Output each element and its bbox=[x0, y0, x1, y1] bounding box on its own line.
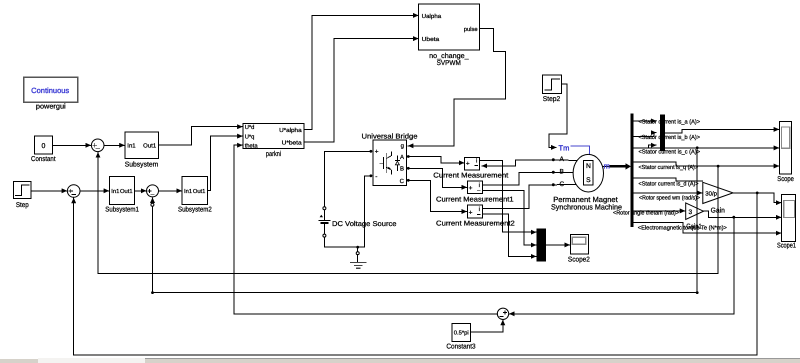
svg-text:powergui: powergui bbox=[36, 103, 66, 111]
svg-text:<Stator current is_q (A)>: <Stator current is_q (A)> bbox=[639, 164, 699, 171]
svg-text:C: C bbox=[400, 178, 405, 185]
svg-text:SVPWM: SVPWM bbox=[437, 60, 461, 67]
step source Step bbox=[13, 181, 31, 209]
wire Step2 to machine Tm input bbox=[549, 84, 567, 147]
wire Subsystem2 Out1 to parkni U*q bbox=[207, 136, 242, 190]
svg-text:Scope: Scope bbox=[777, 176, 794, 183]
svg-text:Current Measurement2: Current Measurement2 bbox=[436, 221, 515, 228]
wire bridge A to Current Measurement bbox=[408, 157, 464, 163]
wire electrical angle feedback down to sum S4 bbox=[509, 217, 733, 314]
block Current Measurement2 CM3 bbox=[436, 205, 515, 228]
svg-text:i: i bbox=[479, 206, 480, 213]
svg-text:0: 0 bbox=[42, 143, 46, 150]
wire bus out wm to gain 30/p bbox=[634, 192, 702, 194]
svg-text:B: B bbox=[400, 165, 404, 172]
step source Step2 bbox=[543, 75, 562, 103]
svg-text:Tm: Tm bbox=[559, 143, 570, 152]
wire gain 3 output to Scope1 input 2 bbox=[704, 211, 782, 217]
wire machine phase A to CM1 minus bbox=[482, 165, 515, 167]
svg-text:Subsystem: Subsystem bbox=[125, 160, 159, 168]
wire is_c feedback down and back to sum S3 bbox=[153, 148, 698, 293]
bus selector bar bbox=[631, 114, 634, 227]
port dot bridge minus bbox=[370, 174, 373, 177]
hop marker below sum S3 bbox=[151, 203, 154, 206]
wire Subsystem Out1 to parkni U*d bbox=[159, 127, 243, 145]
svg-text:<Rotor speed wm (rad/s)>: <Rotor speed wm (rad/s)> bbox=[639, 195, 700, 202]
svg-text:Subsystem2: Subsystem2 bbox=[178, 205, 212, 213]
junction dot at is_c feedback corner bbox=[696, 291, 699, 294]
junction dot on is_c wire bbox=[696, 146, 699, 149]
svg-text:g: g bbox=[401, 144, 404, 150]
summing junction S4 for theta offset bbox=[497, 308, 508, 319]
svg-text:0.5*pi: 0.5*pi bbox=[454, 330, 469, 337]
svg-text:S: S bbox=[586, 177, 591, 184]
svg-text:+: + bbox=[469, 209, 473, 216]
subsystem block Subsystem1 bbox=[105, 176, 139, 213]
svg-text:Synchronous Machine: Synchronous Machine bbox=[551, 203, 622, 212]
wire blue Tm into machine top bbox=[571, 146, 590, 155]
svg-text:3: 3 bbox=[689, 209, 693, 216]
svg-text:pulse: pulse bbox=[464, 26, 478, 33]
wire bus out is_a to mux M1 bbox=[634, 120, 656, 122]
svg-text:<Electromagnetic torque Te (N*: <Electromagnetic torque Te (N*m)> bbox=[638, 225, 728, 232]
svg-text:no_change_: no_change_ bbox=[429, 52, 468, 60]
subsystem block parkni (park transform) bbox=[243, 123, 304, 158]
svg-text:Continuous: Continuous bbox=[31, 86, 69, 95]
wire speed feedback down and back to sum S2 bbox=[74, 193, 758, 355]
svg-text:Gain1: Gain1 bbox=[686, 222, 701, 230]
wire CM2 i output down to mux M2 input 2 bbox=[482, 191, 536, 245]
wire SVPWM pulse to Universal Bridge g bbox=[408, 29, 506, 146]
wire bus out thetam to gain 3 bbox=[634, 210, 685, 212]
svg-text:U*beta: U*beta bbox=[282, 140, 303, 147]
wire Constant to sum S1 bbox=[53, 144, 91, 146]
svg-text:Step: Step bbox=[16, 202, 29, 209]
wire parkni U*alpha to SVPWM Ualpha bbox=[304, 15, 418, 129]
svg-text:Constant: Constant bbox=[31, 156, 56, 163]
constant block Constant3 value 0.5*pi bbox=[446, 323, 475, 350]
svg-text:<Stator current is_b (A)>: <Stator current is_b (A)> bbox=[639, 134, 701, 141]
constant block Constant value 0 bbox=[31, 136, 56, 163]
block Universal Bridge bbox=[373, 140, 407, 185]
port dot machine A bbox=[552, 158, 555, 161]
svg-text:Constant3: Constant3 bbox=[446, 343, 475, 350]
wire CM2 to machine phase B bbox=[482, 172, 553, 185]
port dot machine C bbox=[552, 183, 555, 186]
machine phase stub A bbox=[553, 159, 577, 162]
mux M2 for scope2 bbox=[537, 228, 546, 261]
summing junction S3 bbox=[147, 185, 159, 197]
svg-text:In1: In1 bbox=[111, 189, 119, 195]
svg-text:i: i bbox=[476, 157, 477, 164]
mux M1 for stator currents bbox=[660, 115, 665, 152]
node junction at ground tap bbox=[356, 246, 359, 249]
wire bridge plus to DC source top bbox=[324, 151, 371, 206]
wire Step to sum S2 bbox=[31, 190, 67, 192]
wire bus out Te to Scope1 input 3 bbox=[634, 223, 781, 234]
summing junction S1 bbox=[91, 139, 104, 152]
svg-text:B: B bbox=[560, 169, 564, 176]
svg-text:C: C bbox=[560, 181, 565, 188]
wire is_q feedback down and back to sum S1 bbox=[98, 153, 718, 274]
svg-text:A: A bbox=[400, 154, 404, 161]
svg-text:Out1: Out1 bbox=[193, 188, 206, 195]
wire branch is_c to mux M1 input 3 bbox=[649, 145, 657, 148]
svg-text:Out1: Out1 bbox=[120, 188, 133, 195]
subsystem block Subsystem bbox=[125, 132, 159, 168]
svg-text:Scope2: Scope2 bbox=[568, 257, 590, 264]
port dot bridge A bbox=[407, 155, 410, 158]
svg-text:30/p: 30/p bbox=[705, 191, 717, 198]
wire bus out is_b to mux M1 bbox=[634, 133, 656, 137]
scope block Scope bbox=[777, 121, 794, 182]
wire bridge C to Current Measurement2 bbox=[408, 180, 466, 211]
svg-text:Current Measurement1: Current Measurement1 bbox=[436, 196, 514, 203]
wire sum S4 output to parkni theta bbox=[234, 145, 497, 314]
wire sum S1 to Subsystem bbox=[104, 144, 124, 146]
svg-text:DC Voltage Source: DC Voltage Source bbox=[332, 220, 397, 228]
wire mux M1 to Scope input 1 bbox=[665, 129, 779, 133]
svg-text:Ubeta: Ubeta bbox=[422, 36, 440, 43]
svg-text:Universal Bridge: Universal Bridge bbox=[362, 133, 418, 141]
wire CM1 i output down to mux M2 input 1 bbox=[479, 161, 536, 233]
gain block 30/p bbox=[703, 182, 733, 214]
svg-text:m: m bbox=[604, 162, 610, 171]
svg-text:U*d: U*d bbox=[245, 124, 255, 131]
svg-text:In1: In1 bbox=[184, 189, 192, 195]
svg-text:<Stator current is_d (A)>: <Stator current is_d (A)> bbox=[639, 181, 700, 188]
wire sum S2 to Subsystem1 bbox=[80, 190, 109, 192]
junction dot at sum S3 feedback corner bbox=[151, 291, 154, 294]
svg-text:A: A bbox=[560, 156, 565, 163]
scope block Scope1 bbox=[777, 194, 796, 249]
block Current Measurement1 CM2 bbox=[436, 181, 514, 203]
window bottom scrollbar strip bbox=[0, 358, 800, 363]
wire bus out is_d short run bbox=[634, 178, 703, 181]
svg-text:Out1: Out1 bbox=[143, 143, 157, 150]
svg-text:Ualpha: Ualpha bbox=[422, 13, 442, 20]
wire gain 30/p output to Scope1 input 1 bbox=[733, 193, 781, 203]
svg-text:+: + bbox=[375, 149, 379, 156]
junction dot on gain 3 output bbox=[732, 216, 735, 219]
svg-text:parkni: parkni bbox=[266, 150, 282, 158]
port dot bridge plus bbox=[370, 150, 373, 153]
svg-text:U*alpha: U*alpha bbox=[279, 127, 302, 134]
svg-text:+: + bbox=[466, 161, 470, 168]
junction dot on 30/p output bbox=[756, 192, 759, 195]
wire CM3 to machine phase C bbox=[482, 185, 553, 209]
svg-text:-: - bbox=[375, 174, 377, 181]
wire sum S3 to Subsystem2 bbox=[159, 190, 182, 192]
svg-text:i: i bbox=[479, 182, 480, 189]
subsystem block no_change_ SVPWM bbox=[419, 4, 480, 67]
machine PMSM body bbox=[573, 154, 603, 192]
wire parkni U*beta to SVPWM Ubeta bbox=[304, 39, 418, 143]
scope block Scope2 bbox=[568, 234, 590, 263]
wire bus out is_q run to Scope input 3 bbox=[634, 162, 779, 166]
machine phase stub B bbox=[553, 171, 573, 173]
gain block 3 Gain1 bbox=[686, 203, 704, 230]
svg-text:<Stator current is_c (A)>: <Stator current is_c (A)> bbox=[639, 149, 701, 156]
subsystem block Subsystem2 bbox=[178, 176, 212, 213]
machine phase stub C bbox=[553, 184, 577, 186]
port dot bridge B bbox=[407, 167, 410, 170]
junction dot on is_q wire bbox=[717, 165, 720, 168]
wire bridge minus to ground node and DC source bottom bbox=[324, 176, 371, 247]
port dot machine B bbox=[552, 171, 555, 174]
svg-text:+: + bbox=[469, 185, 473, 192]
svg-text:N: N bbox=[586, 163, 591, 170]
wire segment up to machine A port bbox=[515, 160, 553, 166]
port dot bridge C bbox=[407, 179, 410, 182]
svg-text:Subsystem1: Subsystem1 bbox=[105, 205, 139, 213]
svg-text:theta: theta bbox=[245, 143, 259, 150]
wire bridge B to Current Measurement1 bbox=[408, 168, 466, 187]
IGBT and diode icon inside Universal Bridge bbox=[380, 152, 400, 174]
ground symbol bbox=[351, 249, 366, 269]
wire Constant3 to sum S4 bbox=[471, 320, 503, 332]
svg-text:<Stator current is_a (A)>: <Stator current is_a (A)> bbox=[639, 118, 701, 125]
wire CM3 i output down to mux M2 input 3 bbox=[482, 214, 536, 257]
wire bus out is_c main run to Scope input 2 bbox=[634, 147, 779, 149]
DC Voltage Source battery symbol bbox=[319, 207, 397, 237]
svg-text:In1: In1 bbox=[127, 143, 136, 150]
powergui block bbox=[24, 77, 78, 110]
svg-text:U*q: U*q bbox=[245, 135, 255, 141]
block Current Measurement CM1 bbox=[433, 157, 508, 179]
svg-text:Current Measurement: Current Measurement bbox=[433, 173, 508, 180]
svg-text:Step2: Step2 bbox=[543, 96, 561, 103]
wire mux M2 to Scope2 bbox=[546, 244, 570, 246]
summing junction S2 bbox=[67, 185, 80, 198]
svg-text:Scope1: Scope1 bbox=[777, 242, 796, 249]
wire m bus to Bus Selector thick bbox=[604, 165, 612, 167]
wire Subsystem1 to sum S3 bbox=[135, 190, 147, 192]
